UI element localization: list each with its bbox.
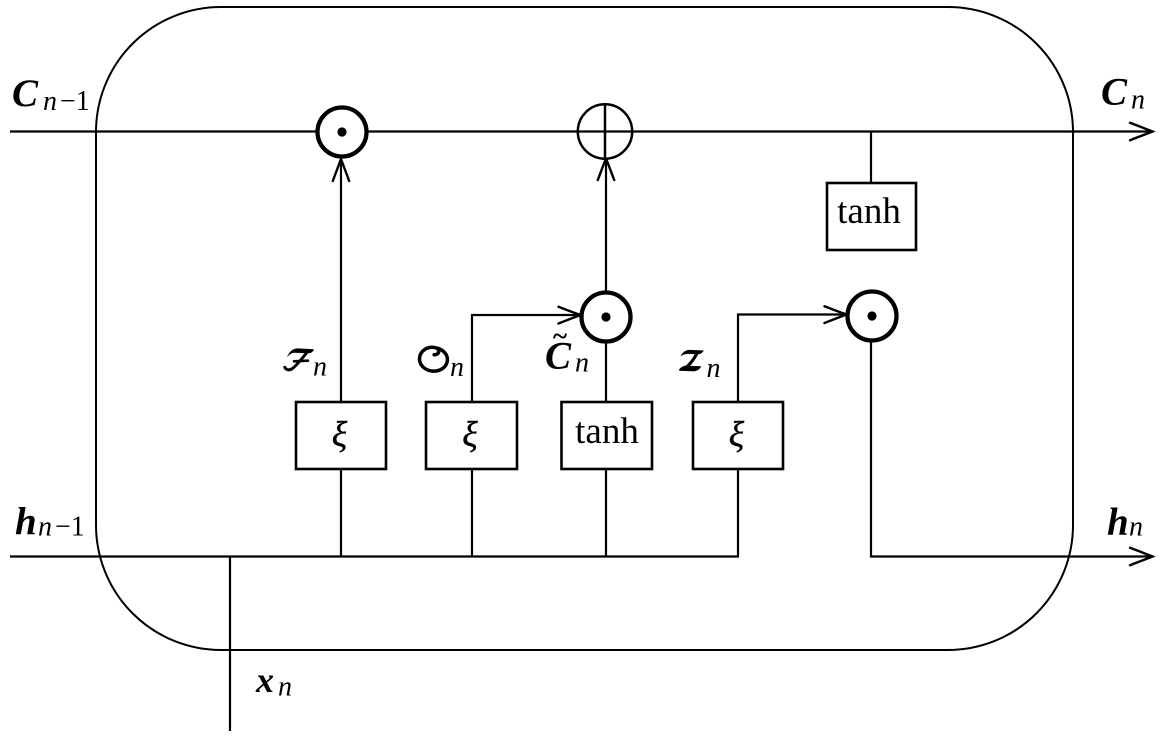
wire: x_n input vertical <box>229 557 231 732</box>
multiply node: forget gate element-wise product <box>318 108 367 157</box>
wire: output branch from cell state line down to tanh box <box>870 132 872 185</box>
svg-text:n: n <box>278 672 292 703</box>
svg-text:C: C <box>12 72 39 115</box>
svg-text:ξ: ξ <box>729 415 745 455</box>
svg-text:x: x <box>255 660 274 700</box>
svg-text:n: n <box>450 352 464 383</box>
box: forget gate xi <box>296 402 386 469</box>
wire: input gate I_n from h line through xi box, up and right into dot-product <box>738 315 844 557</box>
wire: candidate C-tilde vertical from h line through tanh box up through multiply to add <box>605 161 607 557</box>
svg-text:h: h <box>15 500 37 543</box>
svg-text:h: h <box>1107 501 1129 544</box>
label F_n forget gate <box>285 348 314 369</box>
wire: cell state line C_{n-1} to C_n <box>10 130 1151 132</box>
box: output gate xi <box>426 402 517 469</box>
svg-text:n: n <box>1129 512 1143 543</box>
svg-text:n: n <box>707 353 721 384</box>
svg-text:n: n <box>575 348 589 379</box>
svg-text:n: n <box>38 512 52 543</box>
wire: h_{n-1} input line <box>10 555 739 557</box>
svg-text:ξ: ξ <box>332 415 348 455</box>
arrowhead C_n output <box>1130 123 1153 140</box>
svg-text:−1: −1 <box>55 512 85 543</box>
arrowhead into add circle <box>598 159 614 181</box>
label O_n output gate <box>419 347 447 371</box>
svg-text:tanh: tanh <box>575 411 639 452</box>
svg-text:n: n <box>313 352 327 383</box>
svg-text:n: n <box>43 86 57 117</box>
box: output tanh (upper right) <box>827 183 916 250</box>
wire: output gate O_n from h line through xi box, up and right into dot-product <box>472 315 578 557</box>
svg-text:n: n <box>1131 85 1145 116</box>
box: candidate tanh <box>562 402 653 469</box>
multiply node: candidate times output-gate product (middle) <box>582 293 631 342</box>
arrowhead h_n output <box>1130 548 1153 565</box>
multiply node: input gate product (right) <box>848 292 897 341</box>
box: input gate xi <box>693 402 783 469</box>
arrowhead into forget multiply <box>333 159 349 181</box>
add node: element-wise sum <box>578 103 632 159</box>
wire: forget gate vertical from h line through xi box up to multiply <box>340 161 342 557</box>
svg-text:−1: −1 <box>60 86 90 117</box>
svg-text:~: ~ <box>553 321 567 351</box>
arrowhead I_n into multiply <box>825 306 847 323</box>
cell boundary rounded rectangle <box>96 7 1073 650</box>
svg-text:ξ: ξ <box>462 415 478 455</box>
svg-text:C: C <box>1101 71 1128 114</box>
label I_n input gate <box>679 350 704 371</box>
arrowhead O_n into multiply <box>559 307 581 324</box>
wire: h_n output from right dot-product down to line and right <box>871 342 1151 557</box>
svg-text:tanh: tanh <box>837 191 901 232</box>
